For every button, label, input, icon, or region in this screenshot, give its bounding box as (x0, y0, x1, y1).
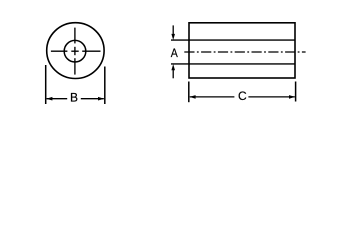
svg-text:A: A (171, 48, 178, 61)
lower bore line with left extension (171, 63, 295, 65)
B right arrowhead (98, 97, 104, 101)
B left extension line (45, 65, 47, 104)
A upper arrowhead (down) (171, 34, 175, 40)
inner circle (bore ID, front view) (64, 40, 86, 62)
rectangle (cylinder side view) (189, 23, 295, 78)
upper bore line with left extension (171, 39, 295, 41)
C right arrowhead (289, 95, 295, 99)
B left arrowhead (46, 97, 52, 101)
C right extension line (295, 82, 297, 102)
horizontal centerline of front view (51, 50, 101, 52)
C left arrowhead (189, 95, 195, 99)
axis centerline (dash-dot) of side view (184, 51, 305, 53)
outer circle (cylinder OD, front view) (47, 23, 104, 79)
A lower arrowhead (up) (171, 64, 175, 70)
A lower dimension line (172, 69, 174, 78)
A upper dimension line (172, 25, 174, 34)
svg-text:C: C (238, 89, 247, 103)
C left extension line (188, 82, 190, 103)
vertical centerline of front view (74, 28, 76, 75)
B dimension line (47, 98, 104, 100)
B right extension line (104, 67, 106, 105)
C dimension line (190, 96, 295, 98)
svg-text:B: B (70, 90, 78, 104)
